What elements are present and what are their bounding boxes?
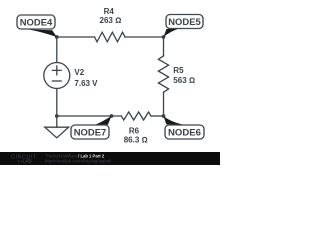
svg-text:R5: R5	[173, 66, 184, 75]
wire left branch lower	[56, 89, 58, 117]
wire bottom-right segment	[151, 115, 164, 117]
svg-text:R4: R4	[104, 7, 115, 16]
resistor R5	[158, 56, 168, 92]
junction top-left	[55, 35, 59, 39]
svg-text:7.63 V: 7.63 V	[74, 79, 98, 88]
ground	[56, 116, 58, 127]
svg-text:NODE6: NODE6	[168, 128, 201, 139]
resistor R6	[121, 112, 151, 120]
svg-text:∿•LAB: ∿•LAB	[17, 159, 33, 165]
junction bottom-left	[55, 114, 59, 118]
wire top-left segment	[57, 36, 95, 38]
svg-text:86.3 Ω: 86.3 Ω	[124, 135, 148, 144]
wire top-right segment	[125, 36, 164, 38]
watermark bar	[0, 152, 220, 165]
svg-text:R6: R6	[129, 127, 140, 136]
svg-text:263 Ω: 263 Ω	[100, 16, 122, 25]
wire bottom-left segment	[57, 115, 122, 117]
svg-text:NODE4: NODE4	[20, 18, 53, 29]
node NODE5	[164, 15, 204, 38]
svg-text:http:∕∕circuitlab.com∕c6xty3sg: http:∕∕circuitlab.com∕c6xty3sg6aqbo8	[45, 159, 112, 164]
junction top-right	[162, 35, 166, 39]
node NODE6	[164, 116, 205, 139]
wire right branch upper	[163, 37, 165, 56]
junction bottom-right	[162, 114, 166, 118]
svg-text:NODE5: NODE5	[168, 17, 201, 28]
voltage source V2	[44, 63, 70, 89]
svg-text:NODE7: NODE7	[74, 128, 107, 139]
node NODE7	[71, 116, 112, 139]
svg-text:V2: V2	[74, 68, 84, 77]
wire left branch upper	[56, 37, 58, 63]
resistor R4	[95, 32, 126, 42]
svg-text:563 Ω: 563 Ω	[173, 76, 195, 85]
node NODE7 terminal	[110, 114, 114, 118]
wire right branch lower	[163, 92, 165, 116]
node NODE4	[17, 15, 57, 37]
